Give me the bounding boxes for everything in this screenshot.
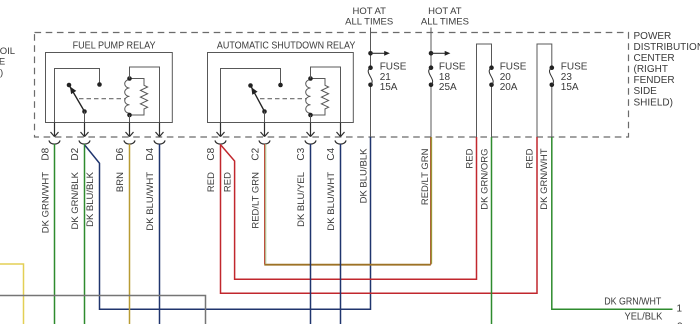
HOT AT ALL TIMES label 1	[345, 6, 393, 28]
svg-text:15A: 15A	[561, 82, 579, 93]
wire: C2 RED/LT GRN light green stripe	[265, 144, 267, 264]
wire: K1 coil top to pin D4	[130, 67, 160, 123]
switch arm K1	[69, 85, 85, 112]
dashed actuator link K2	[260, 98, 306, 100]
wire: K1 coil bottom to pin D6	[129, 115, 131, 123]
svg-text:C4: C4	[326, 147, 337, 160]
svg-text:DK GRN/BLK: DK GRN/BLK	[70, 171, 81, 229]
resistor across coil K1	[130, 79, 148, 116]
left cut-off label (oil/engine text fragment)	[0, 46, 15, 78]
svg-text:ALL TIMES: ALL TIMES	[421, 17, 469, 28]
wire: fuse 20 DK GRN/ORG	[491, 137, 493, 324]
svg-text:FUEL PUMP RELAY: FUEL PUMP RELAY	[73, 40, 156, 51]
fuse 20 label	[500, 62, 527, 93]
node: K1 coil top	[127, 76, 132, 81]
pin D2 exit arrow	[81, 123, 89, 137]
connector cup at pin D6	[124, 140, 135, 144]
svg-text:E: E	[0, 57, 5, 68]
coil K2	[306, 80, 311, 114]
pin D8 exit arrow	[51, 123, 59, 137]
svg-text:RED/LT GRN: RED/LT GRN	[251, 172, 262, 229]
coil K1	[125, 80, 130, 114]
node: K1 arm bottom	[82, 109, 87, 114]
svg-text:D8: D8	[41, 147, 52, 160]
svg-text:C3: C3	[296, 147, 307, 160]
node: K1 fixed contact	[97, 82, 102, 87]
svg-text:SHIELD): SHIELD)	[634, 97, 673, 108]
wire: fuse 20 loop	[477, 44, 492, 137]
connector cup at pin D4	[154, 140, 165, 144]
svg-text:C8: C8	[206, 147, 217, 160]
svg-text:DK BLU/WHT: DK BLU/WHT	[326, 172, 337, 231]
resistor across coil K2	[311, 79, 329, 116]
pin C3 exit arrow	[307, 123, 315, 137]
HOT AT ALL TIMES label 2	[421, 6, 469, 28]
svg-text:20A: 20A	[500, 82, 518, 93]
svg-text:HOT AT: HOT AT	[352, 6, 386, 17]
connector cup at pin C4	[335, 140, 346, 144]
wire: K2 coil bottom to pin C3	[310, 115, 312, 123]
svg-text:CENTER: CENTER	[634, 53, 675, 64]
wire: RED/LT GRN horizontal run to fuse 18	[264, 264, 431, 266]
pin C8 exit arrow	[217, 123, 225, 137]
connector cup at pin C3	[305, 140, 316, 144]
wire: D4 DK BLU/WHT	[159, 144, 161, 324]
connector cup at pin C2	[259, 140, 270, 144]
connector cup at pin D8	[49, 140, 60, 144]
svg-text:DK BLU/WHT: DK BLU/WHT	[145, 172, 156, 231]
wire: C3 DK BLU/YEL	[310, 144, 312, 324]
svg-text:DK GRN/WHT: DK GRN/WHT	[604, 297, 661, 308]
svg-text:D2: D2	[70, 147, 81, 160]
svg-text:D6: D6	[115, 147, 126, 160]
wire: C4 DK BLU/WHT	[340, 144, 342, 324]
svg-text:DK GRN/WHT: DK GRN/WHT	[539, 148, 550, 209]
svg-text:C2: C2	[251, 147, 262, 160]
node: K2 pivot contact	[248, 83, 253, 88]
wire: K2 coil top to pin C4	[311, 67, 341, 123]
automatic shutdown relay K2 box	[208, 53, 354, 123]
svg-text:AUTOMATIC SHUTDOWN RELAY: AUTOMATIC SHUTDOWN RELAY	[217, 40, 356, 51]
svg-text:): )	[0, 68, 3, 79]
svg-text:RED: RED	[223, 172, 234, 192]
svg-text:(RIGHT: (RIGHT	[634, 64, 668, 75]
wire: K2 arm to pin C2	[264, 112, 266, 123]
pin D6 exit arrow	[126, 123, 134, 137]
svg-text:BRN: BRN	[115, 172, 126, 192]
switch arm arrowhead K2	[251, 87, 257, 95]
connector cup at pin C8	[215, 140, 226, 144]
wire: relay K1 pin D8 feed loop to fixed contact	[55, 69, 100, 123]
POWER DISTRIBUTION CENTER label	[634, 31, 700, 109]
fuse 21 element	[368, 65, 373, 70]
svg-text:DK GRN/ORG: DK GRN/ORG	[480, 149, 491, 210]
svg-text:DK BLU/YEL: DK BLU/YEL	[296, 172, 307, 227]
dashed actuator link K1	[79, 98, 125, 100]
wire: C2 RED/LT GRN to fuse 18 (red strand)	[264, 144, 266, 264]
fuse 18 element	[429, 65, 434, 70]
svg-text:FENDER: FENDER	[634, 75, 675, 86]
power distribution center dashed enclosure	[35, 33, 629, 138]
node: K2 coil top	[308, 76, 313, 81]
svg-text:1: 1	[677, 304, 683, 315]
node: K2 arm bottom	[262, 109, 267, 114]
wire: fuse 23 loop	[537, 44, 552, 137]
wire: D6 BRN	[129, 144, 131, 324]
wire: relay K2 pin C8 feed loop to fixed contact	[221, 69, 281, 123]
switch arm arrowhead K1	[70, 87, 76, 95]
switch arm K2	[251, 86, 265, 112]
wire: YEL at lower left	[0, 264, 24, 324]
wire: K1 arm to pin D2	[84, 112, 86, 123]
svg-text:DK GRN/WHT: DK GRN/WHT	[41, 172, 52, 233]
fuse 23 element	[550, 65, 555, 70]
fuse 18 label	[439, 62, 466, 93]
fuse 21 label	[380, 62, 407, 93]
svg-text:D4: D4	[145, 147, 156, 160]
svg-text:25A: 25A	[439, 82, 457, 93]
wire: fuse 18 RED/LT GRN vertical below PDC	[430, 137, 432, 265]
svg-text:DISTRIBUTION: DISTRIBUTION	[634, 42, 700, 53]
svg-text:HOT AT: HOT AT	[428, 6, 462, 17]
node: K2 fixed contact	[278, 83, 283, 88]
pin C4 exit arrow	[337, 123, 345, 137]
fuse 23 label	[561, 62, 588, 93]
wire: D2 DK GRN/BLK	[84, 144, 86, 324]
wire: C8 RED branch to fuse 20	[221, 137, 477, 279]
wire: hot feed into fuse 21	[370, 28, 372, 138]
wire: D8 DK GRN/WHT	[54, 144, 56, 324]
svg-text:RED: RED	[206, 172, 217, 192]
node: K1 coil bottom	[127, 113, 132, 118]
wire: fuse 23 DK GRN/WHT to connector 1	[552, 137, 673, 309]
wire: BLK/GRY at lower left	[0, 296, 206, 324]
wire: D2 DK BLU/BLK to fuse 21	[85, 137, 371, 309]
svg-text:RED/LT GRN: RED/LT GRN	[420, 148, 431, 205]
wire: hot feed into fuse 18	[430, 28, 432, 138]
junction and branch arrow at fuse 21	[368, 51, 373, 56]
pin D4 exit arrow	[156, 123, 164, 137]
junction and branch arrow at fuse 18	[429, 51, 434, 56]
wire: C8 RED to fuse 23	[221, 137, 538, 293]
pin C2 exit arrow	[261, 123, 269, 137]
svg-text:15A: 15A	[380, 82, 398, 93]
svg-text:YEL/BLK: YEL/BLK	[625, 312, 663, 323]
svg-text:DK BLU/BLK: DK BLU/BLK	[359, 148, 370, 204]
svg-text:SIDE: SIDE	[634, 86, 658, 97]
fuel pump relay K1 box	[46, 53, 173, 123]
svg-text:RED: RED	[465, 148, 476, 168]
svg-text:DK BLU/BLK: DK BLU/BLK	[85, 171, 96, 227]
node: K1 pivot contact	[67, 83, 72, 88]
svg-text:ALL TIMES: ALL TIMES	[345, 17, 393, 28]
connector cup at pin D2	[79, 140, 90, 144]
svg-text:RED: RED	[525, 148, 536, 168]
svg-text:POWER: POWER	[634, 31, 672, 42]
node: K2 coil bottom	[308, 113, 313, 118]
fuse 20 element	[489, 65, 494, 70]
